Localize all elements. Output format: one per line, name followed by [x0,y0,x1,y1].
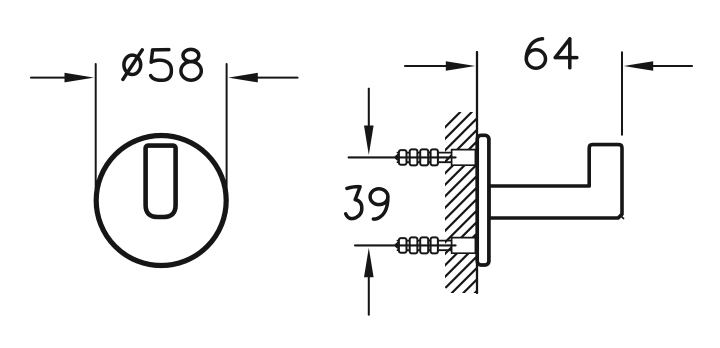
lower screw axis line [355,244,456,246]
lower screw [393,237,451,253]
dimension 39 top arrow [364,89,374,155]
dimension ø58 left extension line [95,64,97,192]
dimension ø58 right extension line [226,64,228,192]
dimension ø58 right arrow [228,73,297,83]
dimension ø58 left arrow [31,73,94,83]
dimension ø58 text: digit 8 [181,49,201,80]
wall edge line (also left extension of 64) [476,52,478,293]
dimension ø58 text: digit 5 [151,50,172,81]
upper screw axis line [349,156,456,158]
dimension 64 text: digit 4 [555,39,577,68]
hook tip corner overshoot [622,217,624,219]
dimension 64 text: digit 6 [526,39,545,68]
dimension 64 right extension line [621,52,623,135]
dimension 64 right arrow [624,61,692,71]
dimension 39 bottom arrow [364,248,374,315]
hook arm and upturned tip [489,145,622,218]
dimension ø58 text: diameter symbol [123,50,142,80]
front view circle (hook face, ø58) [96,136,226,266]
dimension 64 left arrow [405,61,475,71]
dimension 39 text: digit 9 [370,189,388,219]
upper screw [393,149,451,165]
front view hook slot U [146,146,176,217]
dimension 39 text: digit 3 [346,187,362,219]
lower screw hole in wall [452,238,476,254]
wall section hatching [245,112,668,293]
hook mounting plate [477,135,489,265]
upper screw hole in wall [452,150,476,166]
